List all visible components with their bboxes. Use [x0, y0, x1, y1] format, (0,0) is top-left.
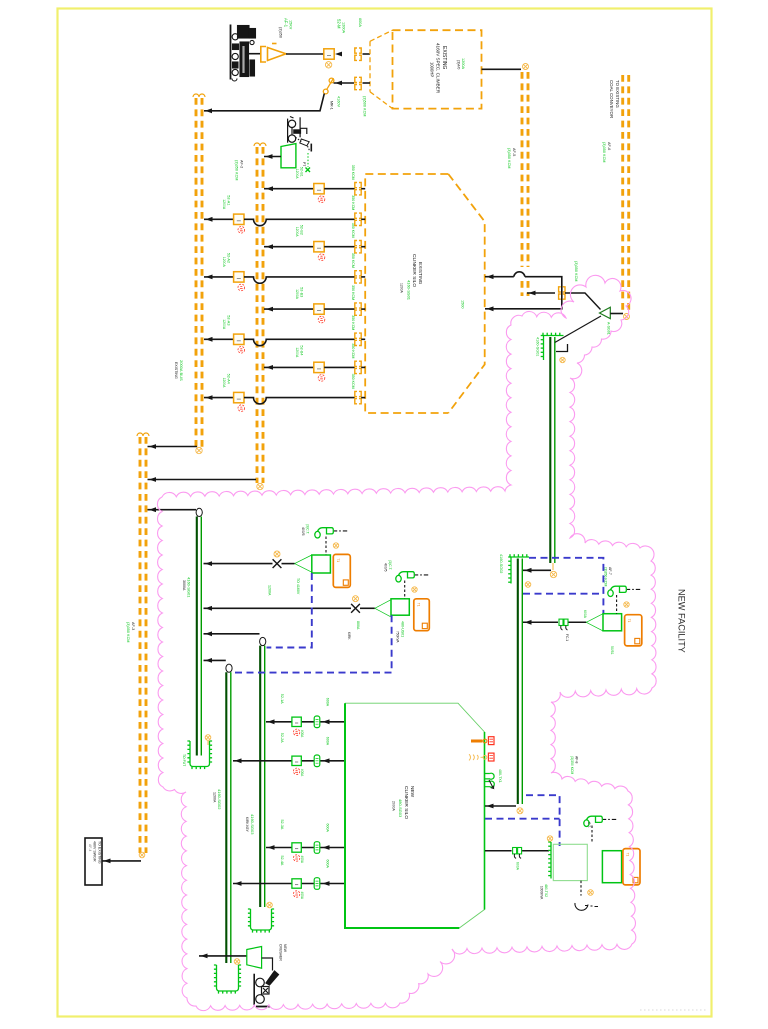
breaker 52-B3	[314, 304, 324, 314]
wire FA3 hop over bus B	[244, 339, 355, 345]
wire XS1 to relay GB1	[282, 563, 295, 565]
svg-text:1200A: 1200A	[222, 257, 226, 268]
relay M3	[293, 855, 299, 861]
feeder wire FA2 from bus A	[204, 276, 234, 278]
fuse block M3	[314, 842, 320, 854]
relay 50/51 FA3	[238, 347, 245, 354]
svg-text:15KV: 15KV	[289, 20, 293, 30]
svg-text:4160V: 4160V	[337, 96, 341, 107]
arrowhead	[149, 477, 156, 482]
existing 480V box BB1	[85, 838, 102, 885]
arrowhead at bus A	[205, 108, 212, 113]
feeder wire FB4 from bus B	[264, 366, 314, 368]
svg-text:400A: 400A	[300, 730, 304, 738]
control cable GB2 to G2 (blue dashed)	[233, 615, 392, 672]
svg-text:480V SWGR: 480V SWGR	[93, 841, 97, 862]
svg-text:T1: T1	[627, 619, 631, 623]
svg-text:52-M: 52-M	[337, 19, 342, 29]
wire FA1 hop over bus B	[244, 219, 355, 225]
svg-text:1200A: 1200A	[342, 22, 346, 33]
svg-text:52-B2: 52-B2	[300, 225, 304, 235]
faint edge dots	[640, 1009, 706, 1011]
svg-text:NEW FACILITY: NEW FACILITY	[677, 589, 687, 653]
svg-text:52-A2: 52-A2	[227, 253, 231, 263]
terminal block T2	[488, 753, 494, 761]
wire BGB to G5 end	[485, 805, 516, 807]
protective relay GB2	[391, 599, 409, 615]
svg-text:480-TX2: 480-TX2	[544, 884, 548, 897]
svg-text:2000A: 2000A	[392, 801, 396, 812]
arrowhead	[205, 561, 212, 566]
drawout contacts FA4	[355, 391, 361, 403]
wire G5 to switch pair DSW1	[523, 621, 558, 623]
drawout contacts FB1	[355, 183, 361, 195]
svg-text:AF-1: AF-1	[284, 18, 289, 28]
relay 50/51 FB3	[318, 316, 325, 323]
wire BB1 to bus C	[102, 860, 141, 862]
svg-text:1200A: 1200A	[400, 283, 404, 294]
svg-text:AF-7: AF-7	[608, 567, 612, 575]
wire FB2 into TB2	[361, 246, 365, 248]
wire delta to bus E	[610, 313, 623, 315]
svg-text:350 KCM: 350 KCM	[351, 374, 355, 389]
wire FA1 into TB2	[361, 218, 365, 220]
wire FB1 into TB2	[361, 188, 365, 190]
bus A (existing 4160V feeder)	[196, 98, 202, 450]
G5 top hatched bar	[510, 554, 529, 557]
svg-text:400/5: 400/5	[301, 527, 305, 536]
breaker 52-A1	[234, 214, 244, 224]
svg-text:1200A: 1200A	[222, 319, 226, 330]
svg-text:400A: 400A	[300, 892, 304, 900]
CT3 secondary dashed	[616, 595, 618, 614]
arrowhead	[487, 306, 494, 311]
wire FA2 hop over bus B	[244, 277, 355, 283]
svg-text:52-B3: 52-B3	[300, 287, 304, 297]
switchgear bus G1	[196, 517, 198, 756]
G3 bus end stub	[248, 909, 274, 933]
link to machine	[262, 958, 273, 971]
svg-text:350 KCM: 350 KCM	[351, 253, 355, 268]
G4 end stem	[552, 563, 554, 570]
wire TB2 bay to junction (upper)	[485, 277, 562, 309]
svg-text:MR-1: MR-1	[330, 101, 334, 110]
svg-text:(3)C.T.: (3)C.T.	[388, 560, 392, 570]
arrowhead	[335, 52, 342, 57]
svg-text:EXISTING: EXISTING	[417, 262, 423, 285]
svg-text:NEW: NEW	[283, 944, 287, 953]
arrowhead	[104, 859, 111, 864]
CT4 secondary dashed	[591, 826, 593, 843]
svg-text:4160-SG02: 4160-SG02	[499, 554, 503, 573]
svg-text:50/51: 50/51	[610, 646, 614, 655]
svg-text:AF-2: AF-2	[240, 160, 244, 168]
funnel GB1	[295, 555, 312, 572]
svg-text:1200A: 1200A	[222, 199, 226, 210]
wire G1 to bus G3	[204, 633, 260, 635]
svg-text:1000HP: 1000HP	[430, 62, 435, 77]
protective relay GB3	[603, 614, 622, 631]
svg-text:52-2A: 52-2A	[280, 733, 284, 743]
relay 50/51 FA4	[238, 405, 245, 412]
svg-text:4160-SG01: 4160-SG01	[187, 577, 192, 598]
svg-text:(3)C.T.: (3)C.T.	[306, 524, 310, 534]
bus E end node	[624, 314, 630, 320]
tag box OT3	[625, 615, 642, 646]
G2 input node	[226, 664, 232, 672]
svg-text:600A: 600A	[326, 737, 330, 746]
bus A cap left	[193, 94, 199, 97]
svg-text:AF-5: AF-5	[512, 148, 516, 156]
riser bus G5	[517, 559, 519, 805]
funnel GB2	[375, 600, 391, 617]
breaker M1	[292, 717, 301, 726]
fuse block M2	[314, 755, 320, 767]
arrowhead	[525, 568, 532, 573]
CT CT2	[396, 572, 415, 582]
breaker 52-A4	[234, 392, 244, 402]
svg-text:4160-SG02: 4160-SG02	[217, 789, 222, 810]
svg-text:400/5: 400/5	[384, 563, 388, 572]
svg-text:52-A4: 52-A4	[227, 374, 231, 384]
svg-text:KIRK: KIRK	[347, 632, 351, 640]
arrowhead	[205, 658, 212, 663]
svg-text:350 KCM: 350 KCM	[351, 315, 355, 330]
hatched stub SB2	[548, 842, 551, 879]
relay 50/51 FB4	[318, 375, 325, 382]
svg-text:(3)4/0: (3)4/0	[457, 60, 461, 69]
breaker 52-A3	[234, 334, 244, 344]
G1 input node	[196, 508, 202, 516]
svg-text:TO 4160V: TO 4160V	[296, 578, 300, 595]
PT1 fuse kite	[296, 137, 312, 151]
svg-text:AF-3: AF-3	[131, 622, 135, 630]
svg-text:(3)350 KCM: (3)350 KCM	[126, 622, 130, 642]
wire FB3 into TB2	[361, 308, 365, 310]
protective relay GB1	[312, 555, 331, 573]
balloon G5 top	[525, 582, 531, 588]
bus C	[140, 437, 146, 853]
wire DC3 to delta	[565, 293, 601, 310]
svg-text:4160V SPEC. CLIMBER: 4160V SPEC. CLIMBER	[436, 43, 441, 94]
G4 top hatched bar	[543, 333, 564, 336]
existing equipment box TB1	[393, 30, 482, 108]
svg-text:(3)350 KCM: (3)350 KCM	[574, 261, 578, 281]
svg-text:400A: 400A	[300, 769, 304, 777]
arrowhead	[525, 620, 532, 625]
bus C end node	[139, 852, 145, 858]
arrowhead	[201, 954, 208, 959]
wire FB4 cont	[324, 366, 355, 368]
riser bus G4	[549, 337, 551, 563]
svg-text:600A: 600A	[326, 698, 330, 707]
control cable GB1 to G3 (blue dashed)	[267, 573, 312, 648]
bus end cap	[254, 143, 260, 146]
balloon CT2	[412, 587, 417, 592]
balloon CT1	[333, 543, 338, 548]
drawout contacts FB2	[355, 241, 361, 253]
wire bus B to GB0	[264, 156, 281, 158]
transformer winding glyph	[485, 773, 494, 787]
svg-text:1200A: 1200A	[222, 378, 226, 389]
switch pair DSW1	[559, 619, 568, 625]
arrowhead	[529, 291, 536, 296]
svg-text:(3)350 KCM: (3)350 KCM	[602, 142, 606, 162]
wire FB3 cont	[324, 308, 355, 310]
control cable G5 to GB3 (blue dashed)	[523, 558, 603, 613]
balloon G2 stub	[234, 959, 240, 965]
wire G5 to G4 stem	[523, 569, 551, 571]
drawout contacts FB4	[355, 361, 361, 373]
G3 input node	[260, 637, 266, 645]
svg-text:PT: PT	[302, 162, 306, 166]
svg-text:52-B1: 52-B1	[300, 167, 304, 177]
svg-text:480-US01: 480-US01	[401, 621, 405, 637]
svg-text:1500: 1500	[461, 300, 465, 308]
incoming pointer arrow	[471, 740, 483, 743]
svg-text:1200A: 1200A	[268, 585, 272, 596]
svg-text:1000KVA: 1000KVA	[540, 886, 544, 900]
wire FB2 cont	[324, 246, 355, 248]
switch XS2	[351, 604, 360, 613]
breaker M2	[292, 756, 301, 765]
relay 50/51 FB2	[318, 254, 325, 261]
drawout contacts DC2	[355, 77, 361, 89]
relay M2	[293, 768, 299, 774]
wire G1 to XS1	[204, 563, 273, 565]
svg-text:(3)350 KCM: (3)350 KCM	[235, 160, 239, 180]
wire to crusher feeder	[199, 955, 247, 957]
relay M1	[293, 729, 299, 735]
svg-text:(3)350 KCM: (3)350 KCM	[570, 756, 574, 774]
G4 left hatched bar	[541, 336, 544, 361]
svg-text:4160-SG01: 4160-SG01	[536, 337, 540, 356]
MCC feeder wire M4 from G2	[233, 883, 345, 885]
bus D (existing feeder)	[522, 72, 528, 267]
drawout contacts DC3	[559, 287, 565, 299]
wire DS1 to drawout DC2	[334, 82, 355, 84]
bus end cap	[260, 143, 266, 146]
switch XS1	[273, 559, 282, 568]
svg-text:1200A: 1200A	[295, 289, 299, 300]
svg-text:52-3A: 52-3A	[280, 820, 284, 830]
CT CT3	[608, 586, 627, 596]
tag box OT4	[623, 849, 640, 885]
svg-text:FC-1: FC-1	[565, 634, 569, 641]
wire delta to G4	[555, 316, 601, 343]
svg-text:T1: T1	[625, 853, 629, 857]
arrowhead	[323, 881, 330, 886]
terminal block T1	[488, 737, 494, 745]
svg-text:(3)350: (3)350	[279, 27, 283, 38]
svg-text:600A: 600A	[358, 18, 362, 27]
metering transformer GB0	[281, 144, 296, 168]
svg-text:3000A: 3000A	[182, 580, 186, 591]
wire bus A to DS1	[204, 94, 324, 111]
wire	[363, 82, 371, 84]
svg-text:4160-SS01: 4160-SS01	[407, 280, 412, 301]
feeder wire FA3 from bus A	[204, 338, 234, 340]
wire FA3 into TB2	[361, 338, 365, 340]
svg-text:480-TX1: 480-TX1	[498, 769, 502, 783]
balloon XS1	[274, 551, 280, 557]
tag box OT1	[333, 554, 350, 587]
breaker M3	[292, 843, 301, 852]
arrowhead	[335, 81, 342, 86]
balloon XS2	[353, 596, 359, 602]
G4 elbow jumper	[556, 344, 568, 352]
wire FB4 into TB2	[361, 366, 365, 368]
relay M4	[293, 891, 299, 897]
breaker 52-A2	[234, 272, 244, 282]
svg-text:350 KCM: 350 KCM	[351, 195, 355, 210]
transformer box PGB	[553, 844, 587, 880]
balloon G5 end	[517, 808, 523, 814]
svg-text:2000A BUS: 2000A BUS	[179, 360, 184, 381]
arrowhead	[149, 507, 156, 512]
svg-text:4160-SG03: 4160-SG03	[250, 814, 255, 835]
svg-text:52-4A: 52-4A	[280, 856, 284, 866]
MCC feeder wire M2 from G2	[233, 760, 345, 762]
svg-text:EXISTING: EXISTING	[174, 362, 178, 379]
fused cutout FU1	[261, 44, 286, 63]
svg-text:800A: 800A	[356, 621, 360, 630]
svg-text:750KVA: 750KVA	[396, 631, 400, 643]
svg-text:1200A: 1200A	[295, 169, 299, 180]
bus D lower section	[522, 281, 528, 296]
svg-text:(3)500 KCM: (3)500 KCM	[363, 96, 367, 116]
svg-text:52-B4: 52-B4	[300, 345, 304, 355]
revision cloud (new facility scope)	[157, 275, 656, 1010]
funnel GB3	[586, 614, 603, 631]
svg-text:350 KCM: 350 KCM	[351, 165, 355, 180]
drawout contacts FA2	[355, 271, 361, 283]
delta transformer TX-D	[600, 307, 611, 318]
balloon G4 end	[550, 571, 556, 577]
arrowhead	[205, 606, 212, 611]
drawout contacts DC1	[355, 48, 361, 60]
wire utility to fuse FU1	[248, 53, 260, 55]
breaker 52-B1	[314, 184, 324, 194]
bus E (existing feeder)	[623, 75, 629, 311]
wire TB1 to bus D	[482, 68, 522, 70]
svg-text:T1: T1	[336, 558, 340, 562]
svg-text:AF-6: AF-6	[607, 142, 611, 150]
potential transformer stack PT1	[288, 117, 307, 143]
bus B (existing 4160V feeder)	[257, 147, 263, 483]
arrowhead	[323, 845, 330, 850]
svg-text:(3)350 KCM: (3)350 KCM	[507, 148, 511, 168]
MCC feeder wire M1 from G3	[266, 721, 345, 723]
distribution bus G3	[259, 646, 261, 907]
tie wire bus C to bus B	[148, 479, 257, 481]
svg-text:600A: 600A	[326, 860, 330, 869]
CT1 secondary dashed	[325, 537, 327, 556]
bus D top node	[523, 64, 529, 70]
arrowhead	[205, 631, 212, 636]
fuse block M1	[314, 716, 320, 728]
existing clinker silo box TB2	[365, 174, 485, 413]
drawout contacts FA3	[355, 333, 361, 345]
feeder wire FB3 from bus B	[264, 308, 314, 310]
CT CT1	[315, 528, 334, 538]
svg-text:A-SG01: A-SG01	[607, 322, 611, 335]
wire FB1 cont	[324, 188, 355, 190]
control cable G5 end (blue dashed)	[485, 795, 560, 846]
svg-text:52-A1: 52-A1	[227, 195, 231, 205]
balloon PGB	[588, 890, 594, 896]
bus A end node	[196, 447, 202, 453]
tie wire bus C to bus A	[148, 446, 198, 448]
breaker 52-M	[324, 49, 334, 59]
svg-text:600A: 600A	[516, 862, 520, 871]
CT2 secondary dashed	[404, 581, 406, 599]
drawout contacts FB3	[355, 303, 361, 315]
switch pair DSW2	[513, 848, 522, 854]
CT CT4	[584, 816, 603, 826]
svg-text:KIRK KEY: KIRK KEY	[245, 817, 249, 833]
svg-text:C.T.: C.T.	[587, 822, 591, 828]
cable transition funnel to box TB1	[370, 30, 393, 108]
svg-text:600A: 600A	[326, 824, 330, 833]
wire to transition	[363, 53, 371, 55]
svg-text:350 KCM: 350 KCM	[351, 285, 355, 300]
radio link marks	[469, 754, 487, 760]
wire FA4 hop over bus B	[244, 398, 355, 404]
arrowhead	[149, 444, 156, 449]
svg-text:EXISTING: EXISTING	[441, 46, 447, 69]
balloon 52-M	[325, 62, 331, 68]
feeder wire FA1 from bus A	[204, 218, 234, 220]
breaker 52-B4	[314, 362, 324, 372]
balloon G1 stub	[205, 735, 211, 741]
svg-text:AF-4: AF-4	[88, 844, 92, 851]
relay 50/51 FA2	[238, 284, 245, 291]
ground hook	[575, 903, 598, 910]
PGB secondary dashed	[580, 881, 582, 896]
arrowhead	[323, 719, 330, 724]
crusher transition trapezoid	[247, 947, 262, 969]
feeder wire FA4 from bus A	[204, 397, 234, 399]
svg-text:NEW: NEW	[409, 786, 415, 798]
feeder wire FB2 from bus B	[264, 246, 314, 248]
arrowhead	[266, 154, 273, 159]
arrowhead	[487, 804, 494, 809]
wire XS2 to relay GB2	[360, 607, 375, 609]
bus end cap	[137, 433, 143, 436]
G5 left hatched bar	[508, 557, 511, 584]
svg-text:1200A: 1200A	[213, 792, 217, 803]
svg-text:52-A3: 52-A3	[227, 315, 231, 325]
svg-text:1200A: 1200A	[461, 58, 465, 69]
wire FA2 into TB2	[361, 276, 365, 278]
svg-text:CRUSHER: CRUSHER	[279, 944, 283, 961]
relay 50/51 FA1	[238, 227, 245, 234]
balloon SB2	[547, 836, 552, 841]
G1 bus end stub	[187, 741, 212, 769]
arrowhead	[487, 274, 494, 279]
utility source U1 (detailed black symbol)	[231, 25, 256, 82]
wire DSW1 to GB3	[569, 621, 587, 623]
balloon G4	[560, 357, 565, 362]
protective relay GB4	[602, 851, 621, 883]
bus B end node	[257, 483, 263, 489]
svg-text:480-SG03: 480-SG03	[398, 799, 403, 818]
svg-text:TO EXISTING: TO EXISTING	[98, 841, 102, 864]
svg-text:COAL CONVEYOR: COAL CONVEYOR	[609, 80, 614, 118]
bus end cap	[143, 433, 149, 436]
PT1 ground lead	[307, 153, 309, 167]
